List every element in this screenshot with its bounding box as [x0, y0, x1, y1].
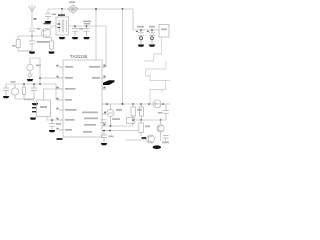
node C6 junction — [140, 29, 142, 31]
capacitor C10 — [49, 120, 55, 130]
node comp junction 2 — [132, 119, 134, 121]
wire input rail — [18, 35, 41, 37]
node C9 junction — [33, 83, 35, 85]
label FB1 — [69, 1, 75, 3]
svg-text:TA31136: TA31136 — [70, 54, 88, 59]
label X3 — [116, 109, 122, 111]
label C12 — [162, 142, 169, 144]
ground (C4) — [72, 37, 78, 39]
pin names U1 left inside — [65, 66, 77, 131]
node rail junction 3 — [140, 103, 142, 105]
wire feedback loop 3 — [150, 74, 170, 81]
wire rail drop to C3 — [47, 9, 49, 14]
pin names U1 right inside — [82, 66, 100, 133]
capacitor C11 (right edge) — [163, 104, 169, 120]
wire comparator rail — [106, 120, 167, 126]
wire feedback loop 5 — [161, 90, 163, 94]
label C3 — [52, 14, 56, 16]
node comp junction 3 — [140, 119, 142, 121]
ground (C5) — [83, 37, 89, 39]
node pin2 junction — [39, 77, 41, 79]
capacitor C1 (series, antenna lead) — [29, 28, 35, 31]
label C9 — [24, 99, 33, 101]
ground (X1) — [27, 79, 33, 81]
wire supply rail top — [48, 8, 133, 10]
capacitor C4 — [72, 26, 78, 37]
label R5 — [145, 126, 150, 128]
node C7 junction — [151, 29, 153, 31]
crystal X1 — [27, 58, 33, 79]
label L1 — [12, 45, 16, 47]
wire feedback loop 4 — [150, 81, 166, 105]
wire R1 to ground — [51, 49, 53, 52]
ground (C10) — [49, 130, 55, 132]
wire antenna to node A — [31, 31, 33, 36]
comparator network resistor R3 — [131, 104, 136, 120]
node D junction (rail to Vcc drop) — [122, 8, 124, 10]
label C13 — [109, 136, 114, 138]
wire quad detector rail — [6, 83, 56, 85]
pin numbers U1 left — [57, 65, 59, 130]
ground (emitter) — [48, 52, 54, 54]
ground (C7) — [149, 45, 155, 47]
variable resistor VR1 — [153, 100, 161, 108]
resistor R2 — [22, 84, 25, 99]
inductor L1 — [16, 36, 32, 51]
transistor Q3 — [147, 135, 155, 143]
ground (CF1) — [30, 118, 36, 120]
ground (C6) — [138, 45, 144, 47]
wire feedback loop 1 — [144, 37, 162, 61]
capacitor C2 (input shunt) — [29, 36, 35, 51]
node pin13 junction — [109, 130, 111, 132]
node comp junction 1 — [110, 125, 112, 127]
ground (C3) — [45, 21, 51, 23]
label B1 — [161, 29, 167, 31]
resistor R5 — [139, 120, 144, 136]
label R3 — [137, 109, 142, 111]
label C4 — [79, 28, 83, 30]
node C5 junction — [86, 25, 88, 27]
transformer T1 (IF can) — [56, 17, 69, 35]
wire rail to IC top — [95, 9, 97, 60]
transistor Q2 — [157, 120, 164, 132]
capacitor C13 (pin13) — [101, 131, 107, 143]
label pin8 — [57, 138, 63, 140]
wire pin2 branch — [40, 77, 59, 79]
capacitor C7 (electrolytic) — [149, 30, 155, 44]
IC U1 TA31136 — [63, 60, 102, 137]
label C11 — [158, 112, 163, 114]
capacitor C6 (electrolytic) — [138, 30, 144, 44]
wire pin13 rail — [107, 130, 138, 132]
wire detector grounds — [15, 99, 34, 103]
ground (input filter) — [29, 52, 35, 54]
node C13 junction — [103, 130, 105, 132]
resistor R1 (emitter) — [50, 41, 54, 49]
node rail junction — [95, 8, 97, 10]
ground (output, blob) — [153, 145, 161, 149]
label T1 — [58, 14, 65, 16]
squelch box — [127, 118, 135, 124]
capacitor C5 — [84, 26, 90, 37]
wire T1 to IC pin16 — [69, 26, 107, 67]
node C10 junction — [51, 119, 53, 121]
capacitor C14 (pin row 126 top) — [101, 120, 107, 126]
node rail-x1 junction — [39, 83, 41, 85]
node audio junction 1 — [106, 103, 108, 105]
label C6 — [137, 26, 144, 28]
label Q3 — [142, 137, 147, 139]
ceramic discriminator X2 — [11, 84, 18, 99]
label X2 — [11, 81, 16, 83]
wire Q1 collector — [49, 26, 57, 29]
wire Q1 emitter — [49, 38, 52, 42]
ground (C8) — [3, 96, 9, 98]
wire node B to T1 — [61, 9, 63, 17]
node A junction — [31, 35, 33, 37]
transistor Q1 — [41, 28, 50, 37]
pins CF1 — [32, 103, 36, 112]
capacitor C9 — [31, 84, 37, 99]
capacitor C3 (supply bypass) — [45, 14, 51, 21]
ground (C13) — [101, 143, 107, 145]
capacitor C12 — [163, 136, 169, 142]
resistor R4 — [140, 104, 144, 120]
node rail junction 4 — [148, 103, 150, 105]
label C1 — [37, 28, 41, 30]
node rail junction 2 — [132, 103, 134, 105]
node rail junction 5 — [162, 103, 164, 105]
wire audio rail — [107, 103, 170, 105]
label Q1 value — [38, 41, 49, 43]
label C5 — [83, 21, 91, 23]
label Q1 part number — [44, 23, 51, 25]
wire long vertical Vcc — [122, 9, 124, 104]
ceramic resonator X3 — [107, 104, 114, 121]
node R2 junction — [23, 83, 25, 85]
label ANT — [34, 18, 37, 19]
pin stubs U1 right — [102, 67, 107, 131]
wire CF1 out to pin6 — [47, 117, 62, 121]
antenna ANT1 — [29, 5, 36, 28]
pin stubs U1 left — [59, 67, 63, 130]
label C2 — [37, 41, 42, 43]
label C7 — [149, 26, 155, 28]
wire feedback loop 2 — [146, 61, 167, 76]
label C10 — [56, 123, 61, 125]
pin numbers U1 right — [104, 65, 107, 126]
battery B1 (power box) — [159, 25, 169, 38]
wire CF1 top to pin3 — [44, 89, 60, 100]
label C7 plus — [147, 31, 149, 32]
wire Q2 emitter down — [160, 132, 162, 141]
wire X1 to pin2 — [30, 58, 40, 84]
ground (detector) — [32, 103, 38, 105]
transformer T1 winding ticks — [57, 24, 60, 28]
audio out arrow — [103, 80, 115, 85]
node C4 junction — [74, 25, 76, 27]
node B junction — [61, 8, 63, 10]
label C6 plus — [136, 31, 138, 32]
wire Q3 base rail — [126, 139, 146, 141]
node comp junction 4 — [160, 119, 162, 121]
inductor FB1 (choke on rail) — [68, 5, 78, 13]
node Vcc joins rail — [122, 103, 124, 105]
wire rail corner to battery — [133, 9, 159, 30]
ground (T1) — [59, 37, 65, 39]
ceramic filter CF1 — [37, 100, 51, 117]
wire rail to pin4 — [56, 84, 59, 100]
capacitor C8 (left end) — [3, 84, 9, 96]
label X1 — [36, 65, 41, 67]
label C5 value — [84, 23, 90, 25]
label C14 — [112, 118, 120, 120]
label CF1 — [40, 106, 47, 108]
